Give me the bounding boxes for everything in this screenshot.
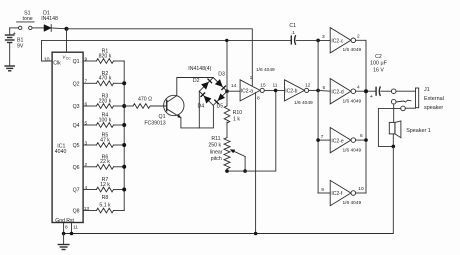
svg-text:Q5: Q5: [73, 143, 80, 149]
wire node14 up to feedback rail: [226, 40, 228, 91]
svg-text:6: 6: [85, 101, 88, 107]
R11 wiper arrow: [234, 151, 246, 156]
svg-text:linear: linear: [210, 149, 223, 155]
wire Q3 stub: [83, 105, 96, 107]
svg-text:5.1 k: 5.1 k: [99, 203, 111, 209]
svg-text:11: 11: [73, 225, 78, 231]
node 15/11: [274, 89, 278, 93]
node dots on bus: [122, 81, 126, 85]
wire bus to 470 ohm: [124, 105, 133, 107]
svg-text:Rst: Rst: [66, 218, 74, 224]
node gnd: [62, 232, 66, 236]
svg-text:47 k: 47 k: [100, 137, 110, 143]
wire R1 to bus: [114, 60, 125, 62]
svg-text:1/6 4049: 1/6 4049: [256, 67, 275, 73]
wire feedback node to osc node 15/11: [245, 90, 276, 171]
svg-text:.1: .1: [291, 30, 295, 36]
resistor R2 470 k: [96, 71, 113, 86]
svg-text:B1: B1: [17, 37, 23, 43]
wire input 9: [318, 192, 330, 194]
svg-text:Q8: Q8: [73, 209, 80, 215]
svg-text:16 V: 16 V: [373, 67, 384, 73]
diode D5: [214, 93, 225, 109]
svg-text:tone: tone: [23, 16, 33, 22]
svg-text:8: 8: [257, 96, 260, 102]
ground (main): [58, 234, 70, 250]
wire Q6 stub: [83, 166, 96, 168]
svg-text:9: 9: [85, 56, 88, 62]
wire R4 to bus: [114, 124, 125, 126]
svg-text:220 k: 220 k: [99, 98, 112, 104]
svg-text:IC2-f: IC2-f: [331, 191, 342, 197]
svg-text:Q1: Q1: [159, 114, 166, 120]
svg-text:R8: R8: [102, 195, 109, 201]
capacitor C1 .1: [289, 23, 296, 45]
wire battery to switch: [10, 27, 19, 29]
wire R8 to bus: [114, 210, 125, 212]
svg-text:9: 9: [321, 187, 324, 193]
node rst: [70, 232, 74, 236]
inverter IC2-f: [321, 180, 364, 205]
svg-text:12: 12: [305, 83, 311, 89]
svg-text:R10: R10: [233, 110, 243, 116]
wire Q7 stub: [83, 189, 96, 191]
diode D1 IN4148: [41, 10, 58, 31]
wire node14 down to R10: [226, 91, 228, 106]
wire IC2-a pin8 to ground rail: [255, 93, 257, 234]
svg-text:100 μF: 100 μF: [370, 61, 388, 67]
node on feedback rail: [225, 39, 228, 42]
node output bus / C2: [364, 89, 368, 93]
svg-text:Q7: Q7: [73, 188, 80, 194]
svg-text:3: 3: [85, 140, 88, 146]
resistor R7 12 k: [96, 177, 113, 192]
svg-text:470 Ω: 470 Ω: [138, 97, 152, 103]
potentiometer R11 250k linear pitch: [208, 136, 245, 171]
svg-text:CC: CC: [66, 56, 71, 60]
svg-text:IC2-c: IC2-c: [331, 38, 343, 44]
svg-text:IC2-e: IC2-e: [331, 138, 343, 144]
svg-text:100 k: 100 k: [99, 117, 112, 123]
svg-text:IN4148: IN4148: [41, 16, 58, 22]
wire Q1 emitter to bridge bottom: [181, 105, 214, 128]
wire Q8 stub: [83, 210, 96, 212]
wire ground node to bottom rail: [392, 146, 394, 233]
resistor R3 220 k: [96, 94, 113, 109]
svg-text:4040: 4040: [55, 149, 67, 155]
svg-text:5: 5: [323, 85, 326, 91]
wire bridge left corner down to emitter line: [198, 91, 200, 128]
svg-text:External: External: [424, 96, 444, 102]
svg-text:8: 8: [65, 225, 68, 231]
svg-text:Clk: Clk: [53, 61, 61, 67]
ground (battery): [4, 66, 15, 71]
wire Q1 collector to bridge top: [177, 78, 213, 96]
svg-text:11: 11: [273, 83, 278, 89]
svg-text:10: 10: [358, 186, 364, 192]
resistor R8 5.1 k: [96, 195, 113, 213]
resistor 470 ohm: [133, 97, 152, 109]
wire jack sleeve to ground elbow: [378, 108, 400, 146]
svg-text:4: 4: [357, 85, 360, 91]
svg-text:13: 13: [84, 206, 90, 212]
svg-text:1/6 4049: 1/6 4049: [343, 200, 362, 206]
node input 7: [316, 138, 320, 142]
bottom ground rail: [64, 233, 394, 235]
inverter IC2-e: [321, 128, 363, 153]
node speaker/jack ground: [392, 145, 396, 149]
svg-text:D4: D4: [197, 103, 204, 109]
svg-text:7: 7: [85, 79, 88, 85]
svg-text:1/6 4049: 1/6 4049: [294, 100, 313, 106]
switch S1: [17, 10, 34, 29]
svg-text:Speaker 1: Speaker 1: [406, 128, 431, 134]
svg-text:C2: C2: [375, 54, 382, 60]
wire C1 to node 3: [296, 39, 330, 41]
battery B1: [5, 28, 24, 66]
wire input 7: [318, 139, 330, 141]
svg-text:C1: C1: [289, 23, 296, 29]
node pot bottom: [225, 169, 229, 173]
wire IC2-c out to output bus: [356, 40, 366, 193]
wire Q4 stub: [83, 124, 96, 126]
diode D2: [193, 78, 212, 89]
svg-text:1 k: 1 k: [233, 117, 240, 123]
svg-text:FC39013: FC39013: [144, 120, 165, 126]
resistor summing bus: [123, 61, 125, 211]
svg-text:speaker: speaker: [424, 105, 443, 111]
wire V+ rail to IC2-a pin 1: [67, 29, 253, 86]
wire Q2 stub: [83, 82, 96, 84]
resistor R5 47 k: [96, 133, 113, 148]
inverter IC2-c: [322, 28, 360, 53]
diode D3: [215, 71, 226, 90]
node 3: [316, 39, 320, 43]
svg-text:1/6 4049: 1/6 4049: [343, 47, 362, 53]
wire C2 to jack tip: [381, 90, 392, 92]
svg-text:D3: D3: [218, 71, 225, 77]
resistor R6 22 k: [96, 154, 113, 169]
wire switch to D1: [32, 27, 44, 29]
svg-text:7: 7: [321, 134, 324, 140]
inverter IC2-d: [323, 79, 361, 104]
resistor R10 1 k: [224, 106, 242, 123]
node Vcc junction: [64, 27, 68, 31]
inverter IC2-b: [285, 80, 309, 101]
svg-text:250 k: 250 k: [208, 143, 221, 149]
input bus node12: [317, 40, 319, 193]
svg-text:+: +: [13, 31, 17, 37]
wire input 5: [318, 89, 330, 92]
wire D1 to node: [51, 27, 66, 30]
svg-text:2: 2: [85, 162, 88, 168]
node IC2 vss on rail: [254, 232, 258, 236]
svg-text:Q6: Q6: [73, 165, 80, 171]
svg-text:IN4148(4): IN4148(4): [188, 66, 211, 72]
svg-text:Q1: Q1: [73, 59, 80, 65]
svg-text:Q4: Q4: [73, 123, 80, 129]
speaker 1: [389, 121, 430, 138]
svg-text:15: 15: [260, 83, 266, 89]
wire IC2-e out to bus: [356, 139, 366, 141]
svg-text:IC2-d: IC2-d: [331, 89, 343, 95]
wire IC2-b out to node 12: [309, 89, 318, 91]
svg-text:1/6 4049: 1/6 4049: [343, 147, 362, 153]
wire 470 ohm to Q1 base: [151, 105, 167, 107]
svg-text:D2: D2: [193, 78, 200, 84]
svg-text:IC2-b: IC2-b: [285, 89, 297, 95]
wire R7 to bus: [114, 189, 125, 191]
svg-text:14: 14: [231, 83, 237, 89]
node bus e: [364, 138, 368, 142]
svg-text:IC2-a: IC2-a: [241, 89, 253, 95]
wire IC2-a out to IC2-b in: [264, 89, 284, 91]
svg-text:470 k: 470 k: [99, 76, 112, 82]
wire Q1 stub: [83, 60, 96, 62]
wire speaker to ground node: [392, 134, 394, 147]
wire Q5 stub: [83, 144, 96, 146]
svg-text:22 k: 22 k: [100, 159, 110, 165]
svg-text:3: 3: [322, 34, 325, 40]
svg-text:6: 6: [360, 133, 363, 139]
node 12: [316, 89, 320, 93]
svg-text:2: 2: [357, 34, 360, 40]
resistor R4 100 k: [96, 113, 113, 128]
wire R5 to bus: [114, 144, 125, 146]
wire R10 to R11: [226, 122, 228, 138]
wire R11 bottom to feedback node: [227, 169, 245, 171]
svg-text:1/6 4049: 1/6 4049: [343, 99, 362, 105]
svg-text:J1: J1: [424, 87, 430, 93]
svg-text:4: 4: [85, 185, 88, 191]
svg-text:pitch: pitch: [211, 156, 222, 162]
capacitor C2 100uF 16V: [370, 54, 388, 100]
wire node down to IC1 Vcc pin: [66, 29, 68, 52]
svg-text:5: 5: [85, 120, 88, 126]
node 14 (bridge right corner): [225, 89, 229, 93]
svg-text:9V: 9V: [17, 43, 24, 49]
inverter IC2-a: [240, 80, 264, 102]
wire IC1 Rst pin 11: [71, 223, 73, 234]
IC1 pin numbers: [84, 56, 90, 212]
resistor R1 820 k: [96, 49, 113, 64]
node wiper/bottom join: [243, 169, 247, 173]
wire R2 to bus: [114, 82, 125, 84]
wire IC2-f out to bus: [356, 192, 366, 194]
wire IC1 Gnd pin 8: [63, 223, 65, 234]
wire IC2-d out to C2: [356, 90, 377, 92]
wire R3 to bus: [114, 105, 125, 107]
svg-text:R11: R11: [211, 136, 220, 142]
svg-text:12 k: 12 k: [100, 182, 110, 188]
IC1 output labels Q1-Q8: [73, 59, 80, 215]
wire R6 to bus: [114, 166, 125, 168]
jack J1 external speaker: [391, 87, 443, 111]
svg-text:Q2: Q2: [73, 81, 80, 87]
svg-text:+: +: [370, 94, 373, 100]
svg-text:1: 1: [250, 75, 253, 81]
svg-text:820 k: 820 k: [99, 53, 112, 59]
wire node14 to IC2-a input: [227, 90, 240, 92]
wire jack switch to speaker: [393, 104, 395, 122]
IC1 4040 box: [52, 52, 83, 222]
svg-text:D5: D5: [216, 103, 223, 109]
svg-text:Q3: Q3: [73, 104, 80, 110]
bridge frame: [199, 78, 227, 106]
diode D4: [197, 93, 211, 110]
wire Clk pin 10 to feedback rail: [42, 40, 292, 61]
transistor Q1 FC39013: [144, 95, 184, 126]
